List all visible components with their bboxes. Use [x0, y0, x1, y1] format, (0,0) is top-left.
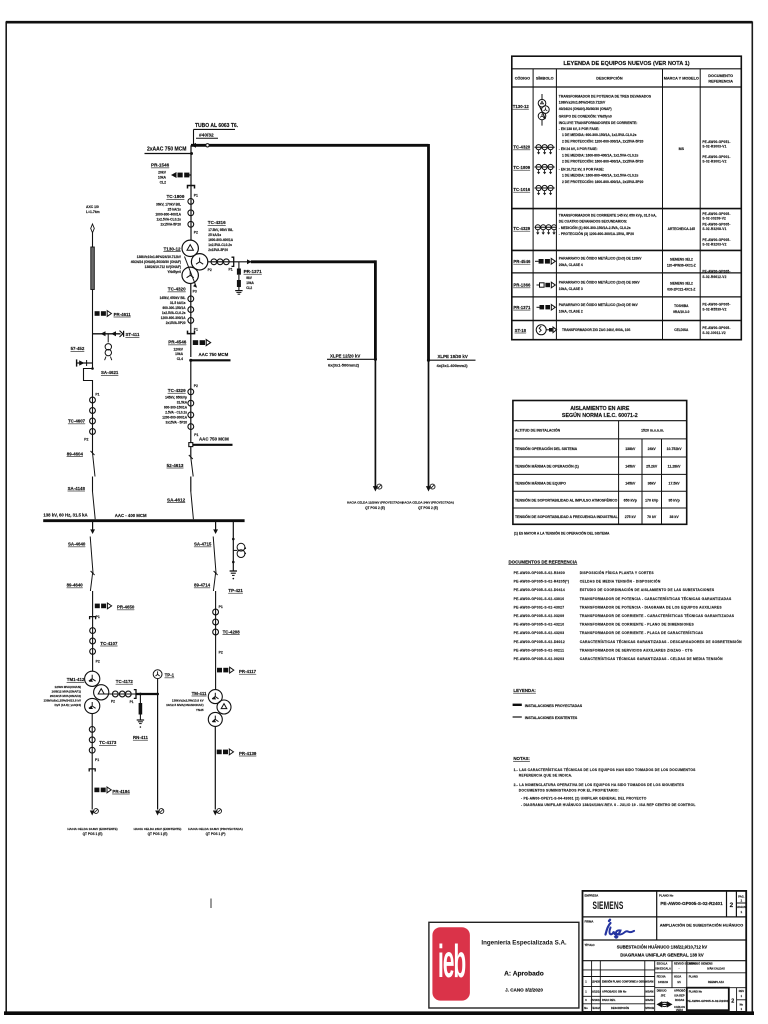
svg-text:PE-AW00-GP001-: PE-AW00-GP001-	[702, 155, 730, 159]
svg-text:2.5VA - CL0.2s: 2.5VA - CL0.2s	[165, 411, 187, 415]
svg-text:17.5kV, 95kV BIL: 17.5kV, 95kV BIL	[208, 228, 233, 232]
svg-text:1: 1	[741, 1007, 743, 1011]
wire: left column continues	[92, 290, 94, 364]
svg-text:TC-4107: TC-4107	[100, 641, 118, 646]
svg-text:P2: P2	[84, 438, 88, 442]
svg-text:PR-4546: PR-4546	[168, 340, 187, 345]
middle cells text	[655, 961, 744, 1012]
arrester PR-1546	[151, 163, 191, 185]
svg-text:1 DE MEDIDA: 600-300-150/1A, 1: 1 DE MEDIDA: 600-300-150/1A, 1x2.5VA-CL0…	[562, 133, 637, 137]
svg-text:P2: P2	[194, 231, 198, 235]
svg-text:- DIAGRAMA UNIFILAR HUÁNUCO 13: - DIAGRAMA UNIFILAR HUÁNUCO 138/24/10kV-…	[521, 802, 696, 807]
svg-text:9RA/10.3-0: 9RA/10.3-0	[673, 310, 690, 314]
node: 138kV main bus	[43, 512, 244, 520]
notas body	[514, 767, 697, 807]
svg-text:PARARRAYO DE ÓXIDO METÁLICO (Z: PARARRAYO DE ÓXIDO METÁLICO (ZnO) DE 120…	[559, 256, 642, 261]
disconnector SA-4612	[167, 477, 193, 520]
svg-text:CARACTERÍSTICAS TÉCNICAS GARAN: CARACTERÍSTICAS TÉCNICAS GARANTIZADAS - …	[580, 639, 742, 644]
breaker 89-4604	[67, 451, 95, 477]
svg-text:TRANSFORMADOR DE POTENCIA - DI: TRANSFORMADOR DE POTENCIA - DIAGRAMA DE …	[580, 605, 723, 609]
svg-text:PR-4650: PR-4650	[117, 605, 135, 610]
svg-text:1: 1	[741, 994, 743, 998]
svg-text:31.5kA: 31.5kA	[177, 401, 188, 405]
svg-text:138kV±8x1.25%/24/13.8 kV: 138kV±8x1.25%/24/13.8 kV	[43, 699, 81, 703]
node: feeder B arrow to cell	[402, 484, 454, 510]
svg-text:PE-AW00-GP005-S-02-43210: PE-AW00-GP005-S-02-43210	[514, 623, 565, 627]
svg-text:AAC 750 MCM: AAC 750 MCM	[199, 352, 229, 357]
svg-text:P1: P1	[194, 193, 198, 197]
svg-text:2 DE PROTECCIÓN: 1600-800-400/: 2 DE PROTECCIÓN: 1600-800-400/1A, 2x15VA…	[562, 179, 643, 184]
svg-text:AMPLIACIÓN DE SUBESTACIÓN HUÁN: AMPLIACIÓN DE SUBESTACIÓN HUÁNUCO	[660, 922, 743, 927]
row1 description	[559, 94, 652, 183]
wire: feeder A lower	[374, 359, 376, 488]
svg-text:REFERENCIA QUE SE INDICA.: REFERENCIA QUE SE INDICA.	[519, 774, 573, 778]
svg-text:2x15VA-5P20: 2x15VA-5P20	[161, 223, 182, 227]
current transformer TC-4208	[213, 603, 241, 690]
svg-text:24kV: 24kV	[648, 447, 657, 451]
node: incoming tube label TUBO AL 6063 T6	[194, 123, 239, 145]
svg-text:600-300-150/1A: 600-300-150/1A	[162, 306, 186, 310]
svg-text:APROBÓ: APROBÓ	[674, 988, 685, 993]
svg-text:T130-12: T130-12	[513, 104, 530, 109]
svg-text:PLANO No: PLANO No	[689, 990, 703, 994]
svg-text:ALTITUD DE INSTALACIÓN: ALTITUD DE INSTALACIÓN	[515, 428, 561, 433]
svg-text:PR-1546: PR-1546	[151, 163, 170, 168]
svg-text:P2: P2	[194, 384, 198, 388]
svg-text:TC-4316: TC-4316	[208, 220, 226, 225]
svg-text:QT POS 1 (E): QT POS 1 (E)	[83, 832, 103, 836]
ieb red logo	[432, 927, 470, 1000]
svg-text:DIAGRAMA UNIFILAR GENERAL 138: DIAGRAMA UNIFILAR GENERAL 138 kV	[620, 953, 704, 958]
svg-text:APROBÓ SIEMENS: APROBÓ SIEMENS	[689, 961, 713, 966]
svg-text:CL2: CL2	[160, 180, 167, 184]
arrester PR-4546	[168, 340, 210, 361]
wire: thick feeder 12/20kV	[247, 259, 375, 359]
svg-text:1000-800-400/1A: 1000-800-400/1A	[155, 213, 181, 217]
svg-text:P3: P3	[193, 290, 197, 294]
svg-text:PE-AW00-GP005-S-02-00211: PE-AW00-GP005-S-02-00211	[514, 648, 565, 652]
current transformer TC-1809	[155, 194, 198, 234]
svg-text:S-02-R3203-V2: S-02-R3203-V2	[702, 242, 726, 246]
svg-text:2 DE PROTECCIÓN: 1200-600-300/: 2 DE PROTECCIÓN: 1200-600-300/1A, 2x15VA…	[562, 138, 643, 143]
svg-text:Ingeniería Especializada S.A.: Ingeniería Especializada S.A.	[481, 940, 567, 947]
svg-text:DE CUATRO DEVANADOS SECUNDARIO: DE CUATRO DEVANADOS SECUNDARIOS:	[559, 220, 627, 224]
svg-text:36kV: 36kV	[648, 482, 657, 486]
title block frame	[583, 891, 747, 1012]
svg-text:PR-1366: PR-1366	[513, 283, 531, 288]
svg-text:PE-AW00-GP005-S-02-D8012: PE-AW00-GP005-S-02-D8012	[514, 640, 565, 644]
leyenda: proyectadas line sample	[513, 704, 522, 706]
ground	[230, 570, 237, 572]
svg-text:TENSIÓN DE SOPORTABILIDAD A FR: TENSIÓN DE SOPORTABILIDAD A FRECUENCIA I…	[515, 514, 619, 519]
voltage transformer PT-452	[71, 334, 112, 360]
svg-text:DOCUMENTOS DE REFERENCIA: DOCUMENTOS DE REFERENCIA	[509, 559, 579, 564]
svg-text:J. CANO 3/2/2020: J. CANO 3/2/2020	[505, 988, 543, 993]
transformer T130-12 (three winding)	[131, 240, 212, 294]
svg-text:TC-1016: TC-1016	[513, 187, 530, 192]
svg-text:ESTUDIO DE COORDINACIÓN DE AIS: ESTUDIO DE COORDINACIÓN DE AISLAMIENTO D…	[580, 587, 715, 592]
svg-text:P2: P2	[111, 700, 115, 704]
breaker 89-4714	[194, 571, 218, 603]
svg-text:TRANSFORMADOR DE SERVICIOS AUX: TRANSFORMADOR DE SERVICIOS AUXILIARES ZI…	[580, 648, 693, 652]
transformer TM-411 (three winding)	[166, 690, 231, 727]
svg-text:TC-1809: TC-1809	[167, 194, 185, 199]
svg-text:DOCUMENTOS SUMINISTRADOS POR E: DOCUMENTOS SUMINISTRADOS POR EL PROPIETA…	[519, 788, 619, 792]
svg-text:P2: P2	[219, 651, 223, 655]
svg-text:TENSIÓN OPERACIÓN DEL SISTEMA: TENSIÓN OPERACIÓN DEL SISTEMA	[515, 446, 578, 451]
svg-text:SIN ESCALA: SIN ESCALA	[655, 966, 671, 970]
svg-text:145kV: 145kV	[625, 465, 636, 469]
current transformer TC-4607	[68, 393, 100, 453]
node: feeder A arrow to cell	[347, 484, 403, 510]
svg-text:XLPE 18/30 kV: XLPE 18/30 kV	[438, 354, 468, 359]
svg-text:- PE-AW00-OPEY1-S-04-43001 (2): - PE-AW00-OPEY1-S-04-43001 (2) UNIFILAR …	[521, 797, 647, 801]
svg-text:QT POS 1 (E): QT POS 1 (E)	[148, 832, 168, 836]
svg-text:ISA REP: ISA REP	[674, 993, 685, 997]
svg-text:TC-4320: TC-4320	[513, 145, 530, 150]
svg-text:1200-600-300/1A: 1200-600-300/1A	[161, 316, 187, 320]
svg-text:PR-4139: PR-4139	[239, 751, 257, 756]
svg-text:APROBADO SIN No: APROBADO SIN No	[602, 990, 627, 994]
svg-text:EMPRESA: EMPRESA	[585, 893, 599, 897]
svg-text:12/4/20: 12/4/20	[591, 980, 600, 984]
svg-text:89-4714: 89-4714	[194, 583, 211, 588]
svg-text:1: 1	[585, 990, 587, 994]
svg-text:ARTECHE/CA-145: ARTECHE/CA-145	[668, 227, 696, 231]
svg-text:TENSIÓN DE SOPORTABILIDAD AL I: TENSIÓN DE SOPORTABILIDAD AL IMPULSO ATM…	[515, 497, 618, 502]
wire: bypass jog	[84, 363, 93, 397]
svg-text:REFERENCIA: REFERENCIA	[708, 79, 733, 83]
svg-text:P1: P1	[95, 393, 99, 397]
svg-text:CL2: CL2	[246, 286, 252, 290]
current transformer TC-4107	[90, 603, 118, 672]
svg-text:SA-4640: SA-4640	[68, 542, 86, 547]
svg-text:MARCA Y MODELO: MARCA Y MODELO	[664, 77, 699, 81]
svg-text:PE-AW00-GP005-S-02-R2401: PE-AW00-GP005-S-02-R2401	[660, 901, 723, 906]
svg-text:CL4: CL4	[177, 357, 183, 361]
svg-text:TC-4320: TC-4320	[168, 287, 186, 292]
svg-text:10/12.5 MVA(ONAN/ONAF): 10/12.5 MVA(ONAN/ONAF)	[166, 703, 203, 707]
svg-text:145kV, 650kV BIL: 145kV, 650kV BIL	[160, 296, 186, 300]
svg-text:89-4604: 89-4604	[67, 451, 84, 456]
svg-text:Dy5 (13.8); yn0(24): Dy5 (13.8); yn0(24)	[54, 703, 81, 707]
revision grid	[583, 961, 747, 1012]
svg-text:TC-4172: TC-4172	[116, 679, 134, 684]
node: open connection point	[206, 144, 209, 147]
svg-text:120kV: 120kV	[173, 347, 183, 351]
svg-text:PE-AW00-GP051-: PE-AW00-GP051-	[702, 140, 730, 144]
symbol: arrester	[537, 305, 556, 311]
svg-text:YNd5: YNd5	[196, 708, 204, 712]
disconnector SA-4148	[68, 477, 96, 520]
transformer TM1-412 (three winding)	[43, 671, 108, 713]
svg-text:YNd5yn0: YNd5yn0	[167, 270, 181, 274]
svg-text:20/10/15 MVA(ONAF2): 20/10/15 MVA(ONAF2)	[50, 694, 81, 698]
svg-text:- PROTECCIÓN (3) 1200-600-300/: - PROTECCIÓN (3) 1200-600-300/1A-15VA, 5…	[559, 231, 634, 236]
svg-text:-: -	[679, 967, 680, 970]
svg-text:INCLUYE TRANSFORMADORES DE COR: INCLUYE TRANSFORMADORES DE CORRIENTE:	[559, 121, 638, 125]
svg-text:TUBO AL 6063 T6.: TUBO AL 6063 T6.	[195, 123, 239, 129]
svg-text:AAC - 400 MCM: AAC - 400 MCM	[115, 513, 147, 518]
svg-text:12/0/9 MVA(ONAN): 12/0/9 MVA(ONAN)	[55, 685, 81, 689]
svg-text:QT POS 2 (E): QT POS 2 (E)	[365, 506, 385, 510]
svg-text:138/24/10.712 kV(ONAF): 138/24/10.712 kV(ONAF)	[145, 265, 181, 269]
svg-text:57-452: 57-452	[71, 346, 85, 351]
svg-text:HOJA: HOJA	[674, 975, 681, 979]
wire: AAC 750 MCM stub bus 1	[189, 352, 230, 362]
svg-text:TRANSFORMADOR DE POTENCIA DE T: TRANSFORMADOR DE POTENCIA DE TRES DEVANA…	[559, 94, 652, 98]
svg-text:145kV, 650kVp: 145kV, 650kVp	[165, 396, 187, 400]
svg-text:TP-421: TP-421	[228, 588, 243, 593]
current transformer TC-4173 below TM1-412	[89, 714, 117, 787]
svg-text:1 DE MEDIDA: 1600-800-400/1A,: 1 DE MEDIDA: 1600-800-400/1A, 1x2.5VA-CL…	[562, 174, 638, 178]
svg-text:10kA: 10kA	[158, 175, 167, 179]
svg-text:CÓDIGO: CÓDIGO	[515, 76, 530, 81]
svg-text:ieb: ieb	[438, 936, 466, 988]
svg-text:PE-AW00-GP005-S-02-R4205(*): PE-AW00-GP005-S-02-R4205(*)	[514, 580, 570, 584]
svg-text:SEGÚN NORMA I.E.C. 60071-2: SEGÚN NORMA I.E.C. 60071-2	[562, 412, 638, 419]
svg-text:DISPOSICIÓN FÍSICA PLANTA Y CO: DISPOSICIÓN FÍSICA PLANTA Y CORTES	[580, 570, 655, 575]
svg-text:PARARRAYO DE ÓXIDO METÁLICO (Z: PARARRAYO DE ÓXIDO METÁLICO (ZnO) DE 30k…	[559, 280, 641, 285]
svg-text:FECHA: FECHA	[591, 1006, 600, 1010]
svg-text:FECHA: FECHA	[657, 975, 666, 979]
svg-text:PE-AW00-GP005-: PE-AW00-GP005-	[702, 302, 730, 306]
svg-text:1: 1	[740, 899, 742, 903]
symbol: transformer in legend	[538, 94, 549, 126]
breaker 52-4613	[167, 447, 194, 477]
svg-text:TC-4607: TC-4607	[68, 419, 86, 424]
svg-text:TC-4329: TC-4329	[168, 388, 186, 393]
svg-text:S-02-R3003-V1: S-02-R3003-V1	[702, 145, 726, 149]
symbol: zigzag transformer	[536, 325, 556, 335]
svg-text:030-2PC21-4XC1-Z: 030-2PC21-4XC1-Z	[667, 287, 695, 291]
svg-text:P1: P1	[130, 700, 134, 704]
wire: left column upper	[92, 233, 94, 247]
node: arrow to celda 13.8kV new	[188, 809, 242, 837]
svg-text:TC-1809: TC-1809	[513, 165, 530, 170]
svg-text:TRANSFORMADOR DE CORRIENTE 145: TRANSFORMADOR DE CORRIENTE 145 kV, 650 k…	[559, 213, 657, 217]
svg-text:SA-4612: SA-4612	[167, 497, 186, 502]
svg-text:2x15VA-5P20: 2x15VA-5P20	[166, 321, 186, 325]
arrester PR-4611	[95, 311, 132, 317]
ground switch SA-4621	[77, 359, 119, 375]
svg-text:PLANO No: PLANO No	[659, 893, 674, 897]
arrester PR-4650	[95, 603, 135, 610]
svg-text:CELDISA: CELDISA	[674, 328, 689, 332]
svg-text:PE-AW00-GP001-S-02-43010: PE-AW00-GP001-S-02-43010	[514, 597, 565, 601]
svg-text:INSTALACIONES EXISTENTES: INSTALACIONES EXISTENTES	[525, 716, 578, 720]
svg-text:DESCRIPCIÓN: DESCRIPCIÓN	[611, 1005, 629, 1010]
svg-text:11.28kV: 11.28kV	[668, 465, 682, 469]
svg-text:CELDAS DE MEDIA TENSIÓN - DISP: CELDAS DE MEDIA TENSIÓN - DISPOSICIÓN	[580, 579, 661, 584]
svg-text:SÍMBOLO: SÍMBOLO	[536, 76, 554, 81]
svg-text:PARARRAYO DE ÓXIDO METÁLICO (Z: PARARRAYO DE ÓXIDO METÁLICO (ZnO) DE 9kV	[559, 302, 639, 307]
svg-text:P1: P1	[219, 605, 223, 609]
svg-text:1: 1	[585, 980, 587, 984]
svg-text:QT POS 1 (P): QT POS 1 (P)	[206, 832, 226, 836]
svg-text:TRANSFORMADOR DE CORRIENTE - C: TRANSFORMADOR DE CORRIENTE - CARACTERÍST…	[580, 613, 735, 618]
svg-text:20kA, CLASE 4: 20kA, CLASE 4	[559, 263, 583, 267]
svg-text:P1: P1	[194, 433, 198, 437]
svg-text:2: 2	[730, 902, 734, 909]
svg-text:1520 m.s.n.m.: 1520 m.s.n.m.	[641, 429, 664, 433]
resistor RN-411 neutral grounding	[133, 693, 148, 740]
wire: thick tertiary bus to PT	[136, 693, 158, 695]
svg-text:RN-411: RN-411	[133, 735, 148, 740]
insulation rows	[515, 428, 682, 519]
svg-text:TRANSFORMADOR ZIG ZAG 24kV, 60: TRANSFORMADOR ZIG ZAG 24kV, 600A, 10S	[562, 328, 630, 332]
svg-text:PE-AW00-GP005-: PE-AW00-GP005-	[702, 212, 730, 216]
svg-text:70 kV: 70 kV	[647, 515, 657, 519]
svg-text:9kV: 9kV	[246, 276, 253, 280]
svg-text:DESCRIPCIÓN: DESCRIPCIÓN	[596, 76, 623, 81]
svg-text:52-4613: 52-4613	[167, 463, 184, 468]
svg-text:HOJAS: HOJAS	[737, 905, 746, 909]
breaker 89-4640	[67, 571, 95, 603]
symbol: CT rows in legend	[535, 145, 555, 195]
svg-text:XLPE 12/20 kV: XLPE 12/20 kV	[330, 353, 360, 358]
svg-text:P2: P2	[96, 659, 100, 663]
symbol: arrester	[537, 282, 556, 288]
svg-text:1x2.5VA-CL0.2s: 1x2.5VA-CL0.2s	[208, 243, 232, 247]
svg-text:17.5kV: 17.5kV	[669, 482, 681, 486]
svg-text:HACIA CELDA 24kV (PROYECTADA): HACIA CELDA 24kV (PROYECTADA)	[402, 500, 454, 504]
svg-text:SA-4715: SA-4715	[194, 542, 212, 547]
svg-text:1 DE MEDIDA: 1600-800-400/1A,: 1 DE MEDIDA: 1600-800-400/1A, 1x2.5VA-CL…	[562, 153, 638, 157]
revision rows text	[584, 980, 654, 1010]
svg-text:SIEMENS 3EL2: SIEMENS 3EL2	[670, 281, 693, 285]
svg-text:EMISIÓN PLANO CONFORME A OBRA: EMISIÓN PLANO CONFORME A OBRA	[602, 981, 646, 984]
arrester PR-4117	[217, 667, 257, 674]
svg-text:REEMPLAZA: REEMPLAZA	[708, 980, 724, 984]
svg-text:120-4PW36-4XC1-Z: 120-4PW36-4XC1-Z	[667, 263, 696, 267]
svg-text:1/1: 1/1	[677, 980, 681, 984]
svg-text:PE-AW00-GP005-: PE-AW00-GP005-	[702, 238, 730, 242]
svg-text:10kA: 10kA	[246, 281, 254, 285]
svg-text:40/24/24 (ONAN)-50/30/30 (ONAF: 40/24/24 (ONAN)-50/30/30 (ONAF)	[131, 260, 181, 264]
svg-text:PE-AW00-GP005-S-02-00203: PE-AW00-GP005-S-02-00203	[514, 657, 565, 661]
svg-text:TRANSFORMADOR DE CORRIENTE - P: TRANSFORMADOR DE CORRIENTE - PLACA DE CA…	[580, 630, 704, 635]
svg-text:PE-AW00-GP005-: PE-AW00-GP005-	[702, 326, 730, 330]
svg-text:GRUPO DE CONEXIÓN: YNd5yn0: GRUPO DE CONEXIÓN: YNd5yn0	[559, 114, 612, 119]
svg-text:SA-4148: SA-4148	[68, 486, 86, 491]
svg-text:25 kA/1s: 25 kA/1s	[208, 233, 221, 237]
wire: 138kV incoming thick bus (new)	[191, 143, 429, 148]
svg-text:16/11/19: 16/11/19	[658, 980, 669, 984]
svg-text:1200-600-300/1A: 1200-600-300/1A	[162, 416, 188, 420]
svg-text:P2: P2	[208, 268, 212, 272]
svg-text:P1: P1	[229, 268, 233, 272]
wire: tertiary of TM1-412	[100, 693, 138, 695]
current transformer TC-4172	[111, 679, 136, 704]
svg-text:HACIA CELDA 13.8kV (PROYECTADA: HACIA CELDA 13.8kV (PROYECTADA)	[188, 827, 242, 831]
svg-text:PARA REV.: PARA REV.	[602, 998, 616, 1002]
svg-text:SUBESTACIÓN HUÁNUCO 138/22,9/1: SUBESTACIÓN HUÁNUCO 138/22,9/10,712 kV	[617, 945, 708, 950]
svg-text:No: No	[584, 1006, 588, 1010]
cable: power cable section	[91, 247, 95, 290]
svg-text:600-300-150/1A: 600-300-150/1A	[164, 406, 188, 410]
arrester PR-4139	[215, 726, 257, 809]
wire: tertiary 10.7kV winding to feeder	[208, 261, 251, 263]
svg-text:0: 0	[585, 998, 587, 1002]
svg-text:PE-AW00-GP005-S-02-43203: PE-AW00-GP005-S-02-43203	[514, 631, 565, 635]
svg-text:10.752kV: 10.752kV	[667, 447, 683, 451]
svg-text:38 kV: 38 kV	[670, 515, 680, 519]
svg-text:2x15VA-5P20: 2x15VA-5P20	[208, 248, 228, 252]
node: CT bracket P1	[188, 186, 195, 189]
svg-text:PE-AW00-GP005-S-02-03209: PE-AW00-GP005-S-02-03209	[514, 614, 565, 618]
svg-text:1x2.5VA-CL0.2s: 1x2.5VA-CL0.2s	[157, 218, 182, 222]
svg-text:MSAM: MSAM	[646, 980, 654, 984]
svg-text:LEYENDA DE EQUIPOS NUEVOS (VER: LEYENDA DE EQUIPOS NUEVOS (VER NOTA 1)	[563, 61, 689, 67]
current transformer TC-4329	[162, 360, 198, 444]
svg-text:QT POS 2 (E): QT POS 2 (E)	[418, 506, 438, 510]
svg-text:PR-4611: PR-4611	[114, 312, 132, 317]
svg-text:PE-AW00-GP005-S-02-R3400: PE-AW00-GP005-S-02-R3400	[514, 571, 565, 575]
svg-text:36kV, 170kV BIL: 36kV, 170kV BIL	[156, 203, 181, 207]
svg-text:S-02-30209-V2: S-02-30209-V2	[702, 217, 726, 221]
svg-text:S-02-30011-V2: S-02-30011-V2	[702, 331, 725, 335]
svg-text:PE-AW00-GP005-: PE-AW00-GP005-	[702, 222, 730, 226]
svg-text:S-02-R3208-V1: S-02-R3208-V1	[702, 227, 726, 231]
svg-text:TC-4173: TC-4173	[99, 740, 117, 745]
ieb approval box	[429, 922, 579, 1008]
svg-text:138kV±2x2.5%/13.8 kV: 138kV±2x2.5%/13.8 kV	[172, 698, 204, 702]
svg-text:A: Aprobado: A: Aprobado	[504, 970, 544, 977]
svg-text:L=1.7km: L=1.7km	[86, 210, 100, 214]
arrester PR-1371 on tertiary	[235, 262, 262, 294]
svg-text:PR-1371: PR-1371	[244, 269, 263, 274]
svg-text:S-02-R6612-V2: S-02-R6612-V2	[702, 275, 726, 279]
svg-text:ESCALA: ESCALA	[657, 962, 668, 966]
voltage transformer TP-421 at bus	[228, 521, 246, 593]
svg-text:MSAM: MSAM	[646, 990, 654, 994]
svg-text:- EN 138 kV, 3 POR FASE:: - EN 138 kV, 3 POR FASE:	[559, 127, 600, 131]
svg-text:PR-1371: PR-1371	[513, 305, 531, 310]
disconnector SA-4715	[194, 537, 216, 574]
svg-text:INSTALACIONES PROYECTADAS: INSTALACIONES PROYECTADAS	[525, 704, 583, 708]
svg-text:1x2.5VA-CL0.2s: 1x2.5VA-CL0.2s	[162, 311, 186, 315]
leyenda: existentes line sample	[513, 716, 522, 718]
svg-text:JPZ: JPZ	[661, 993, 666, 997]
svg-text:DOCUMENTO: DOCUMENTO	[708, 74, 733, 78]
svg-text:170 kVp: 170 kVp	[645, 498, 658, 502]
svg-text:TRANSFORMADOR DE CORRIENTE - P: TRANSFORMADOR DE CORRIENTE - PLANO DE DI…	[580, 623, 695, 627]
wire: existing line 2xAAC 750 MCM	[145, 147, 194, 155]
svg-text:16/8/12 MVA(ONAF1): 16/8/12 MVA(ONAF1)	[52, 689, 81, 693]
svg-text:TC-4208: TC-4208	[223, 629, 241, 634]
svg-text:25 kA/1s: 25 kA/1s	[168, 208, 182, 212]
svg-text:1600-800-400/1A: 1600-800-400/1A	[208, 238, 234, 242]
svg-text:20kV: 20kV	[158, 170, 167, 174]
svg-text:275 kV: 275 kV	[625, 515, 637, 519]
svg-text:TÍTULO: TÍTULO	[585, 942, 596, 947]
svg-text:No: No	[740, 1002, 744, 1006]
svg-text:3x15VA - 5P20: 3x15VA - 5P20	[166, 421, 188, 425]
node: arrow to celda 24kV	[134, 809, 182, 837]
svg-text:PE-AW00-GP005-S-02-R2401: PE-AW00-GP005-S-02-R2401	[687, 999, 729, 1003]
current transformer TC-4316	[208, 220, 234, 271]
svg-text:PR-4546: PR-4546	[513, 259, 531, 264]
svg-text:- EN 24 kV, 3 POR FASE:: - EN 24 kV, 3 POR FASE:	[559, 147, 598, 151]
svg-text:25.2kV: 25.2kV	[646, 465, 658, 469]
svg-text:4x(3x1-400mm2): 4x(3x1-400mm2)	[437, 363, 469, 368]
svg-text:2 DE PROTECCIÓN: 1600-800-400/: 2 DE PROTECCIÓN: 1600-800-400/1A, 2x15VA…	[562, 159, 643, 164]
svg-text:- MEDICIÓN (1) 600-300-150/1A-: - MEDICIÓN (1) 600-300-150/1A-2.5VA, CL0…	[559, 225, 631, 230]
svg-text:TP-1: TP-1	[165, 673, 175, 678]
insulation table frame	[513, 401, 687, 525]
svg-text:TENSIÓN MÁXIMA DE OPERACIÓN (1: TENSIÓN MÁXIMA DE OPERACIÓN (1)	[515, 464, 579, 469]
